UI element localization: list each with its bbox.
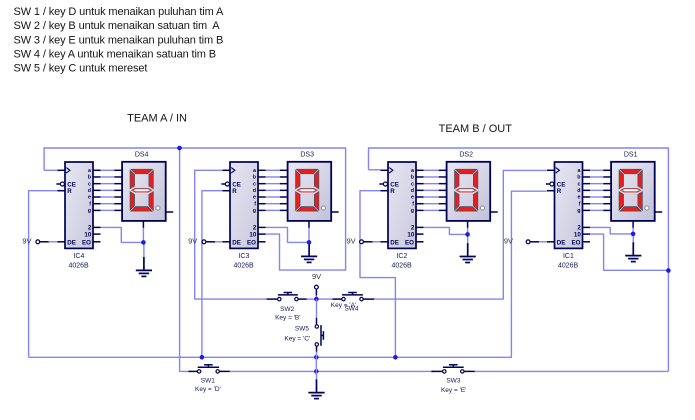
svg-text:EO: EO xyxy=(82,239,91,246)
wire IC4 pin2 (clock inhibit) to ground node xyxy=(101,227,144,242)
IC2 CE inversion bubble xyxy=(383,182,387,186)
wire 9V node to SW4 left xyxy=(316,298,341,300)
svg-text:SW4: SW4 xyxy=(344,306,358,313)
svg-text:f: f xyxy=(89,201,91,207)
svg-text:DS1: DS1 xyxy=(624,152,638,159)
svg-text:a: a xyxy=(253,168,256,174)
IC4 pin stubs xyxy=(56,170,100,242)
IC1 CE inversion bubble xyxy=(550,182,554,186)
svg-text:4026B: 4026B xyxy=(233,263,254,270)
junction node DS4 common xyxy=(141,240,146,245)
ground under DS3 xyxy=(301,242,317,262)
svg-text:TEAM A / IN: TEAM A / IN xyxy=(127,113,187,125)
label SW3 xyxy=(441,377,466,394)
svg-text:TEAM B / OUT: TEAM B / OUT xyxy=(439,123,513,135)
svg-text:c: c xyxy=(253,181,256,187)
wire IC3 R down to reset rail xyxy=(202,191,223,358)
junction IC4 clock / SW1 branch xyxy=(177,146,182,151)
wires IC2 a-g to DS2 xyxy=(424,170,439,210)
wire DS4 common to ground node xyxy=(142,228,144,243)
junction 9V node xyxy=(314,297,319,302)
wire SW4 right stub xyxy=(363,298,374,300)
svg-text:g: g xyxy=(411,208,414,214)
svg-text:DE: DE xyxy=(232,239,241,246)
wire IC2 pin2 (clock inhibit) to ground node xyxy=(424,227,468,234)
svg-text:DS3: DS3 xyxy=(300,152,314,159)
counter IC2 4026B xyxy=(388,162,416,248)
svg-text:SW 2 / key B untuk menaikan sa: SW 2 / key B untuk menaikan satuan tim A xyxy=(14,20,221,32)
svg-text:DS4: DS4 xyxy=(135,152,149,159)
wire SW4 to IC1 clock xyxy=(374,170,547,299)
svg-text:R: R xyxy=(557,188,562,195)
wire IC2 clock entry xyxy=(369,169,381,171)
junction ground rail at SW5 xyxy=(314,369,319,374)
svg-text:c: c xyxy=(88,181,91,187)
wire SW5 bottom to reset rail xyxy=(316,346,318,357)
svg-text:9V: 9V xyxy=(22,236,31,245)
wires IC4 a-g to DS4 xyxy=(101,170,115,210)
wire carry IC3 pin10 to IC4 clock (top-left bus) xyxy=(44,148,346,270)
switch SW2 xyxy=(278,293,299,301)
svg-text:Key = 'C': Key = 'C' xyxy=(284,336,310,343)
svg-text:c: c xyxy=(411,181,414,187)
9V terminal for IC4 DE xyxy=(36,240,58,244)
svg-text:f: f xyxy=(579,201,581,207)
counter IC3 4026B xyxy=(230,162,258,248)
wire IC2 R down to reset rail xyxy=(360,191,395,358)
svg-text:Key = 'D': Key = 'D' xyxy=(195,386,221,393)
svg-text:DE: DE xyxy=(67,239,76,246)
wire IC4 clock entry xyxy=(44,169,57,171)
svg-text:d: d xyxy=(411,188,414,194)
IC1 pin stubs xyxy=(546,170,590,242)
svg-text:4026B: 4026B xyxy=(391,263,412,270)
svg-text:R: R xyxy=(390,188,395,195)
wire IC3 pin2 (clock inhibit) to ground node xyxy=(266,227,310,242)
wire DS2 common to ground node xyxy=(467,228,469,235)
svg-text:EO: EO xyxy=(572,239,581,246)
switch SW5 xyxy=(315,325,323,346)
wire IC1 pin2 (clock inhibit) to ground node xyxy=(590,227,633,234)
counter IC1 4026B xyxy=(555,162,583,248)
svg-text:SW 3 / key E untuk menaikan pu: SW 3 / key E untuk menaikan puluhan tim … xyxy=(14,34,224,46)
switch SW4 xyxy=(342,293,363,301)
junction node DS3 common xyxy=(307,240,312,245)
wire DS3 common to ground node xyxy=(308,228,310,243)
label IC4 xyxy=(68,253,89,269)
ground under DS4 xyxy=(136,242,152,276)
label SW1 xyxy=(195,377,221,393)
label IC3 xyxy=(233,253,254,269)
svg-text:EO: EO xyxy=(405,239,414,246)
wire SW1 branch from IC4 clock node down to SW1 xyxy=(180,148,189,371)
wires IC1 a-g to DS1 xyxy=(590,170,603,210)
wire IC3 clock to SW2 xyxy=(195,170,267,299)
ground under DS1 xyxy=(625,234,641,262)
IC3 CE inversion bubble xyxy=(225,182,229,186)
svg-text:a: a xyxy=(578,168,581,174)
switch SW3 xyxy=(431,365,474,373)
svg-text:9V: 9V xyxy=(188,236,197,245)
svg-text:d: d xyxy=(88,188,91,194)
label SW4 xyxy=(331,302,359,313)
svg-text:DS2: DS2 xyxy=(459,152,473,159)
svg-text:d: d xyxy=(577,188,580,194)
svg-text:9V: 9V xyxy=(504,236,513,245)
wires IC3 a-g to DS3 xyxy=(266,170,280,210)
svg-text:4026B: 4026B xyxy=(68,263,89,270)
svg-text:10: 10 xyxy=(574,231,581,238)
svg-text:SW 4 / key A untuk menaikan sa: SW 4 / key A untuk menaikan satuan tim B xyxy=(14,49,216,61)
switch SW1 xyxy=(188,365,230,373)
svg-text:IC1: IC1 xyxy=(563,253,574,260)
IC3 pin stubs xyxy=(221,170,265,242)
junction reset rail at SW5 xyxy=(314,355,319,360)
svg-text:10: 10 xyxy=(249,231,256,238)
svg-text:c: c xyxy=(578,181,581,187)
wire reset rail to ground rail at SW5 column xyxy=(315,357,317,371)
svg-text:SW1: SW1 xyxy=(201,377,215,384)
svg-text:IC3: IC3 xyxy=(238,253,249,260)
svg-text:f: f xyxy=(412,201,414,207)
junction node DS1 common xyxy=(631,232,636,237)
IC4 CE inversion bubble xyxy=(60,182,64,186)
svg-text:d: d xyxy=(253,188,256,194)
svg-text:EO: EO xyxy=(247,239,256,246)
wire IC4 R to reset rail xyxy=(29,191,58,358)
label IC1 xyxy=(558,253,579,269)
ground rail (bottom) xyxy=(230,370,669,372)
svg-text:DE: DE xyxy=(557,239,566,246)
display DS1 7-segment xyxy=(603,162,662,228)
wire 9V node down to SW5 top xyxy=(316,299,318,325)
svg-text:10: 10 xyxy=(84,231,91,238)
display DS3 7-segment xyxy=(280,162,339,228)
svg-text:IC4: IC4 xyxy=(73,253,84,260)
junction reset rail at IC2 R xyxy=(393,355,398,360)
label IC2 xyxy=(391,253,412,269)
svg-text:e: e xyxy=(578,195,581,201)
ground under DS2 xyxy=(460,234,476,262)
counter IC4 4026B xyxy=(65,162,93,248)
svg-text:g: g xyxy=(88,208,91,214)
9V terminal above SW2/SW4 xyxy=(315,285,319,299)
wire SW2 left stub xyxy=(267,298,278,300)
9V terminal for IC3 DE xyxy=(202,240,222,244)
svg-text:SW2: SW2 xyxy=(280,306,294,313)
junction reset rail at IC3 R xyxy=(200,355,205,360)
svg-text:9V: 9V xyxy=(347,236,356,245)
svg-text:a: a xyxy=(411,168,414,174)
label SW5 xyxy=(284,326,310,343)
svg-text:10: 10 xyxy=(407,231,414,238)
junction node DS2 common xyxy=(465,232,470,237)
IC2 pin stubs xyxy=(379,170,423,242)
svg-text:Key = 'E': Key = 'E' xyxy=(441,387,466,394)
reset rail (R bus) xyxy=(29,191,547,357)
wire SW2 right to 9V node xyxy=(298,298,316,300)
wire DS1 common to ground node xyxy=(632,228,634,234)
svg-text:SW 1 / key D untuk menaikan pu: SW 1 / key D untuk menaikan puluhan tim … xyxy=(14,6,224,18)
svg-text:IC2: IC2 xyxy=(396,253,407,260)
svg-text:SW3: SW3 xyxy=(446,377,460,384)
svg-text:R: R xyxy=(232,188,237,195)
display DS2 7-segment xyxy=(439,162,498,228)
svg-text:Key = 'B': Key = 'B' xyxy=(275,314,300,321)
ground at bottom rail xyxy=(308,371,324,398)
svg-text:a: a xyxy=(88,168,91,174)
9V terminal for IC2 DE xyxy=(360,240,381,244)
label SW2 xyxy=(275,306,300,322)
9V terminal for IC1 DE xyxy=(526,240,547,244)
svg-text:g: g xyxy=(253,208,256,214)
svg-text:R: R xyxy=(67,188,72,195)
svg-text:DE: DE xyxy=(390,239,399,246)
svg-text:e: e xyxy=(411,195,414,201)
svg-text:e: e xyxy=(253,195,256,201)
display DS4 7-segment xyxy=(114,162,173,228)
svg-text:g: g xyxy=(577,208,580,214)
svg-text:SW 5 / key C untuk mereset: SW 5 / key C untuk mereset xyxy=(14,63,148,75)
junction IC1 pin10 / SW3 vertical xyxy=(666,268,671,273)
wire carry IC1 pin10 to IC2 clock (top-right bus) xyxy=(369,148,669,371)
svg-text:4026B: 4026B xyxy=(558,263,579,270)
svg-text:SW5: SW5 xyxy=(295,326,309,333)
svg-text:f: f xyxy=(254,201,256,207)
svg-text:e: e xyxy=(88,195,91,201)
svg-text:9V: 9V xyxy=(312,272,321,281)
